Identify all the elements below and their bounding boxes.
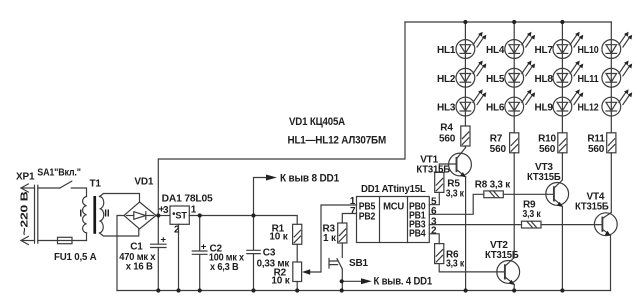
svg-text:HL1—HL12 АЛ307БМ: HL1—HL12 АЛ307БМ bbox=[288, 135, 387, 147]
wiper arrow bbox=[302, 269, 310, 274]
LED column wires bbox=[464, 22, 466, 116]
svg-text:КТ315Б: КТ315Б bbox=[485, 250, 519, 261]
svg-text:HL6: HL6 bbox=[486, 103, 505, 114]
LED HL1 bbox=[456, 32, 486, 59]
svg-text:КТ315Б: КТ315Б bbox=[527, 172, 561, 183]
wire: R6 to VT2 base bbox=[439, 264, 497, 272]
resistor R10 bbox=[561, 116, 563, 133]
svg-text:HL1: HL1 bbox=[437, 45, 456, 56]
svg-text:560: 560 bbox=[588, 144, 605, 155]
wire: R3 to button bbox=[341, 243, 343, 257]
capacitor C2 bbox=[192, 216, 207, 291]
wire: VT2 emitter to ground bbox=[513, 284, 515, 290]
svg-text:10 к: 10 к bbox=[271, 276, 290, 287]
svg-text:HL9: HL9 bbox=[535, 103, 554, 114]
junction nodes: ground rail bbox=[156, 288, 160, 292]
resistor R11 bbox=[610, 116, 612, 133]
wire: secondary bottom to bridge bbox=[100, 229, 139, 236]
wire: feed from rectifier up to top rail bbox=[158, 22, 405, 216]
wire: secondary top to bridge bbox=[100, 194, 140, 203]
wire: pin7 to R3 bbox=[342, 214, 356, 224]
wire: R9 to VT4 base bbox=[541, 224, 598, 226]
svg-text:FU1 0,5 А: FU1 0,5 А bbox=[54, 252, 97, 263]
LED HL5 bbox=[505, 61, 535, 88]
resistor R8 bbox=[484, 191, 504, 198]
svg-text:HL4: HL4 bbox=[486, 45, 505, 56]
trimmer R2 bbox=[293, 262, 302, 282]
svg-text:~220 В: ~220 В bbox=[20, 192, 31, 236]
LED HL3 bbox=[456, 89, 486, 116]
svg-text:R4: R4 bbox=[440, 123, 453, 134]
resistor R4 bbox=[464, 116, 466, 126]
wire: top supply rail bbox=[405, 21, 611, 23]
LED HL12 bbox=[602, 89, 632, 116]
svg-text:х 6,3 В: х 6,3 В bbox=[210, 262, 239, 273]
LED HL10 bbox=[602, 32, 632, 59]
svg-text:HL2: HL2 bbox=[437, 74, 456, 85]
svg-text:MCU: MCU bbox=[383, 202, 404, 213]
svg-text:1 к: 1 к bbox=[323, 233, 337, 244]
junction node: SB1 to pin4 bbox=[340, 279, 344, 283]
svg-text:7: 7 bbox=[350, 206, 356, 217]
svg-text:R8 3,3 к: R8 3,3 к bbox=[475, 180, 511, 191]
svg-text:VD1: VD1 bbox=[134, 177, 153, 188]
wire: R5 to VT1 base bbox=[439, 164, 448, 172]
svg-text:+: + bbox=[201, 241, 207, 252]
XP1 cord double line bbox=[35, 185, 38, 243]
svg-text:HL7: HL7 bbox=[535, 45, 554, 56]
resistor R6 bbox=[435, 244, 444, 264]
svg-text:HL5: HL5 bbox=[486, 74, 505, 85]
svg-text:3,3 к: 3,3 к bbox=[446, 259, 465, 270]
XP1 bottom pin arrow bbox=[21, 236, 28, 244]
wire: plug to switch bbox=[38, 187, 60, 189]
wire: XP1 top stub bbox=[21, 187, 35, 189]
svg-text:560: 560 bbox=[439, 133, 456, 144]
svg-text:+: + bbox=[161, 235, 167, 246]
junction node: C3 top bbox=[251, 213, 255, 217]
svg-text:3: 3 bbox=[163, 205, 169, 216]
arrow to pin 8 bbox=[266, 175, 277, 181]
wire: R2 wiper to DD1 pin1 bbox=[310, 205, 357, 272]
svg-text:КТ315Б: КТ315Б bbox=[575, 201, 609, 212]
LED HL11 bbox=[602, 61, 632, 88]
svg-text:1: 1 bbox=[191, 204, 197, 215]
capacitor C1 bbox=[151, 216, 166, 291]
T1 secondary winding II bbox=[100, 197, 104, 234]
LED HL4 bbox=[505, 32, 535, 59]
svg-text:DD1 ATtiny15L: DD1 ATtiny15L bbox=[361, 184, 426, 195]
svg-text:Т1: Т1 bbox=[90, 178, 102, 189]
wire: XP1 bottom stub bbox=[21, 240, 35, 242]
wire: R8 to VT3 base bbox=[503, 193, 546, 195]
LED HL8 bbox=[553, 61, 583, 88]
resistor R3 bbox=[338, 223, 347, 243]
svg-text:HL10: HL10 bbox=[578, 45, 600, 56]
wire: +5V line from DA1 pin1 to R1 bbox=[189, 216, 297, 225]
fuse FU1 bbox=[38, 240, 58, 242]
wire: R2 to ground bbox=[296, 282, 298, 291]
svg-text:3,3 к: 3,3 к bbox=[523, 209, 542, 220]
arrow to pin 4 bbox=[361, 278, 372, 284]
svg-text:SB1: SB1 bbox=[349, 258, 368, 269]
wire: R1 to R2 bbox=[296, 244, 298, 262]
svg-text:I: I bbox=[79, 209, 82, 220]
svg-text:HL12: HL12 bbox=[578, 103, 600, 114]
LED HL2 bbox=[456, 61, 486, 88]
svg-text:560: 560 bbox=[539, 144, 556, 155]
LED HL6 bbox=[505, 89, 535, 116]
wire: VT3 emitter to ground bbox=[561, 206, 563, 290]
svg-text:560: 560 bbox=[490, 144, 507, 155]
T1 primary winding I bbox=[83, 197, 87, 233]
svg-text:КТ315Б: КТ315Б bbox=[416, 164, 450, 175]
svg-text:HL3: HL3 bbox=[437, 103, 456, 114]
resistor R7 bbox=[513, 116, 515, 133]
capacitor C3 bbox=[247, 216, 260, 291]
svg-text:К выв. 4 DD1: К выв. 4 DD1 bbox=[374, 276, 433, 288]
wire: bridge minus to ground rail bbox=[117, 216, 124, 291]
wire: bridge plus node to DA1 bbox=[156, 215, 170, 217]
svg-text:DA1 78L05: DA1 78L05 bbox=[162, 194, 213, 205]
wire: primary bottom to fuse wire bbox=[86, 233, 88, 241]
svg-text:II: II bbox=[104, 209, 110, 220]
wire: switch to T1 primary bbox=[71, 188, 86, 197]
wire: branch to pin 8 of DD1 bbox=[254, 178, 267, 216]
svg-text:10 к: 10 к bbox=[269, 232, 288, 243]
svg-text:PB4: PB4 bbox=[409, 228, 426, 239]
LED HL9 bbox=[553, 89, 583, 116]
wire: VT4 collector to R11 bbox=[610, 153, 612, 212]
T1 core bbox=[93, 196, 96, 234]
wire: VT4 emitter to ground bbox=[610, 235, 612, 290]
SA1 blade bbox=[60, 181, 72, 188]
XP1 top pin arrow bbox=[21, 184, 28, 192]
svg-text:3,3 к: 3,3 к bbox=[446, 188, 465, 199]
svg-text:HL8: HL8 bbox=[535, 74, 554, 85]
wire: DD1 pin5 to R5 bbox=[429, 192, 439, 204]
wire: SB1 to ground bbox=[341, 269, 343, 291]
svg-text:SA1"Вкл.": SA1"Вкл." bbox=[37, 168, 81, 179]
pushbutton SB1 bbox=[329, 259, 342, 270]
wire: ground rail bbox=[117, 290, 611, 292]
wire: DD1 pin6 to R8 bbox=[429, 194, 484, 214]
svg-text:х 16 В: х 16 В bbox=[126, 262, 153, 273]
svg-text:2: 2 bbox=[431, 226, 437, 237]
svg-text:ST: ST bbox=[175, 211, 187, 221]
junction nodes: top rail bbox=[463, 20, 467, 24]
junction node: DA1 out bbox=[198, 213, 202, 217]
wire: VT1 emitter to ground bbox=[465, 177, 467, 291]
svg-text:HL11: HL11 bbox=[578, 74, 600, 85]
wire: DD1 pin3 to R9 bbox=[429, 224, 521, 226]
resistor R1 bbox=[293, 224, 302, 244]
svg-text:VD1 КЦ405А: VD1 КЦ405А bbox=[289, 116, 345, 128]
resistor R5 bbox=[435, 172, 444, 192]
wire: DD1 pin2 to R6 bbox=[429, 234, 439, 244]
svg-text:C3: C3 bbox=[263, 248, 276, 259]
resistor R9 bbox=[522, 221, 542, 228]
wire: VT3 collector to R10 bbox=[561, 153, 563, 180]
junction node: bridge plus bbox=[156, 213, 160, 217]
svg-text:XP1: XP1 bbox=[16, 172, 35, 183]
wire: DA1 pin2 to ground bbox=[178, 224, 180, 290]
LED HL7 bbox=[553, 32, 583, 59]
wire: VT2 collector to R7 bbox=[513, 153, 515, 257]
svg-text:К выв 8 DD1: К выв 8 DD1 bbox=[280, 172, 339, 184]
wire: branch to pin 4 of DD1 bbox=[342, 280, 361, 282]
svg-text:PB2: PB2 bbox=[359, 211, 376, 222]
